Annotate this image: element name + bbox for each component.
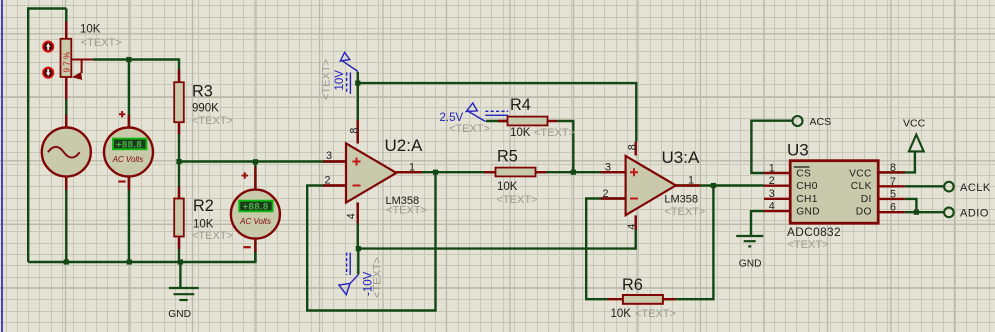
pot down button <box>43 68 53 78</box>
wire <box>28 250 255 262</box>
svg-text:ACLK: ACLK <box>960 182 991 194</box>
ADC0832 chip U3 body <box>790 161 878 224</box>
svg-text:1: 1 <box>409 161 415 173</box>
op-amp U3A pin stubs <box>601 142 700 230</box>
wire <box>396 171 495 173</box>
wire <box>905 185 944 187</box>
junction dot <box>253 159 258 164</box>
wire <box>751 121 792 173</box>
svg-text:2: 2 <box>324 174 330 186</box>
resistor R5 body <box>496 168 536 177</box>
svg-text:ACS: ACS <box>810 116 832 128</box>
svg-text:<TEXT>: <TEXT> <box>788 239 829 251</box>
wire <box>93 60 179 162</box>
potentiometer RV1 body <box>61 39 72 77</box>
svg-text:DO: DO <box>856 206 872 217</box>
svg-text:ADC0832: ADC0832 <box>787 225 841 239</box>
junction dot <box>64 259 69 264</box>
wire <box>751 211 764 236</box>
svg-text:CLK: CLK <box>851 181 872 192</box>
svg-text:+88.8: +88.8 <box>243 202 269 213</box>
resistor R4 pin stubs <box>498 120 557 122</box>
svg-text:R4: R4 <box>510 96 531 114</box>
VCC power arrow <box>909 135 924 152</box>
wire <box>307 172 435 310</box>
svg-text:<TEXT>: <TEXT> <box>497 194 538 206</box>
wire <box>65 9 67 128</box>
wire <box>905 199 917 212</box>
svg-text:U2:A: U2:A <box>385 136 423 155</box>
svg-text:<TEXT>: <TEXT> <box>635 308 676 320</box>
wire <box>357 203 359 249</box>
wire <box>179 160 346 162</box>
svg-text:U3:A: U3:A <box>662 148 700 167</box>
wire <box>673 184 764 186</box>
junction dot <box>711 183 716 188</box>
wire <box>586 199 625 300</box>
resistor R3 pin stubs <box>178 70 180 135</box>
svg-text:<TEXT>: <TEXT> <box>81 37 122 49</box>
ADC pin name CS <box>794 167 811 179</box>
svg-text:VCC: VCC <box>849 168 872 179</box>
svg-text:3: 3 <box>769 188 775 200</box>
junction dot <box>178 259 183 264</box>
junction dot <box>571 170 576 175</box>
svg-text:R5: R5 <box>497 148 518 166</box>
svg-text:<TEXT>: <TEXT> <box>386 205 427 217</box>
pot up button <box>43 41 53 51</box>
svg-text:VCC: VCC <box>903 118 926 130</box>
svg-text:4: 4 <box>346 213 358 219</box>
AC voltmeter 1 <box>104 111 153 182</box>
AC voltmeter 2 <box>231 172 280 247</box>
wire <box>28 9 66 263</box>
svg-text:<TEXT>: <TEXT> <box>321 59 333 100</box>
svg-text:<TEXT>: <TEXT> <box>534 127 575 139</box>
wire <box>557 121 573 172</box>
svg-text:6: 6 <box>890 202 896 214</box>
voltmeter2 pin stubs <box>254 167 256 252</box>
wire <box>65 177 67 262</box>
power flag +10V <box>340 52 358 94</box>
resistor R5 pin stubs <box>484 171 547 173</box>
wire <box>536 171 626 173</box>
svg-text:CS: CS <box>796 168 811 179</box>
wire <box>178 162 180 263</box>
svg-text:2: 2 <box>769 175 775 187</box>
voltmeter1 pin stubs <box>128 115 130 190</box>
svg-text:ADIO: ADIO <box>960 208 989 220</box>
op-amp U3:A <box>626 156 676 215</box>
svg-text:<TEXT>: <TEXT> <box>192 115 233 127</box>
resistor R2 body <box>174 199 184 237</box>
svg-text:R3: R3 <box>192 83 213 101</box>
wire <box>486 120 508 122</box>
wire <box>357 72 359 144</box>
sheet border <box>1 0 3 332</box>
wire <box>878 153 915 173</box>
svg-text:3: 3 <box>326 150 332 162</box>
resistor R2 pin stubs <box>178 187 180 250</box>
svg-text:+88.8: +88.8 <box>116 139 142 150</box>
resistor R3 body <box>174 82 184 122</box>
svg-text:CH1: CH1 <box>796 194 818 205</box>
junction dot <box>433 170 438 175</box>
svg-text:<TEXT>: <TEXT> <box>449 123 490 135</box>
op-amp U2:A <box>346 143 396 202</box>
wire <box>357 249 359 275</box>
junction dot <box>127 259 132 264</box>
svg-text:AC Volts: AC Volts <box>239 217 271 226</box>
svg-text:AC Volts: AC Volts <box>112 155 144 164</box>
svg-text:1: 1 <box>688 174 694 186</box>
svg-text:5: 5 <box>890 189 896 201</box>
wire <box>663 186 714 300</box>
svg-text:GND: GND <box>739 258 762 269</box>
svg-text:10K: 10K <box>193 219 214 231</box>
svg-text:CH0: CH0 <box>796 181 818 192</box>
resistor R6 pin stubs <box>608 298 676 300</box>
AC source pin stubs <box>65 115 67 190</box>
svg-text:R2: R2 <box>193 197 214 215</box>
wire <box>358 216 636 249</box>
resistor R4 body <box>508 117 548 126</box>
svg-text:GND: GND <box>168 309 191 320</box>
junction dot <box>356 246 361 251</box>
svg-text:4: 4 <box>626 224 638 230</box>
svg-text:GND: GND <box>796 206 820 217</box>
junction dot <box>355 81 360 86</box>
svg-text:4: 4 <box>769 201 775 213</box>
svg-text:8: 8 <box>890 162 896 174</box>
terminal ADIO <box>944 208 954 218</box>
ADC0832 left pin stubs <box>764 173 790 211</box>
svg-text:10V: 10V <box>334 70 346 91</box>
svg-text:10K: 10K <box>611 308 632 320</box>
wire <box>905 211 944 213</box>
svg-text:7: 7 <box>890 176 896 188</box>
terminal ACLK <box>944 182 954 192</box>
ground symbol 1 <box>169 288 199 300</box>
potentiometer RV1 wiper <box>71 60 93 80</box>
AC source V1 <box>42 128 91 177</box>
svg-text:10K: 10K <box>497 181 518 193</box>
svg-text:2.5V: 2.5V <box>440 112 464 124</box>
power flag -10V <box>339 253 358 295</box>
resistor R6 body <box>623 295 663 304</box>
junction dot <box>176 159 181 164</box>
svg-text:LM358: LM358 <box>664 194 698 206</box>
svg-text:DI: DI <box>861 194 872 205</box>
svg-text:8: 8 <box>626 144 638 150</box>
wire <box>254 162 256 263</box>
power flag 2.5V <box>466 103 508 122</box>
terminal ACS <box>793 116 803 126</box>
op-amp U2 pin stubs <box>323 120 422 223</box>
svg-text:<TEXT>: <TEXT> <box>372 257 384 298</box>
svg-text:1: 1 <box>769 163 775 175</box>
svg-text:2: 2 <box>602 188 608 200</box>
junction dot <box>126 57 131 62</box>
ADC0832 right pin stubs <box>878 172 905 212</box>
wire <box>128 60 130 128</box>
svg-text:<TEXT>: <TEXT> <box>664 206 705 218</box>
wire <box>179 262 181 288</box>
svg-text:10K: 10K <box>510 127 531 139</box>
svg-text:<TEXT>: <TEXT> <box>192 230 233 242</box>
svg-text:8: 8 <box>348 128 360 134</box>
junction dot <box>914 210 919 215</box>
svg-text:R6: R6 <box>622 276 643 294</box>
svg-text:U3: U3 <box>787 140 809 159</box>
svg-text:990K: 990K <box>192 103 219 115</box>
wire <box>358 83 637 142</box>
pot RV1 pin stubs <box>65 22 67 100</box>
wire <box>128 177 130 262</box>
svg-text:97%: 97% <box>62 50 71 73</box>
svg-text:10K: 10K <box>80 24 101 36</box>
svg-text:3: 3 <box>605 161 611 173</box>
ground symbol 2 <box>736 236 763 246</box>
